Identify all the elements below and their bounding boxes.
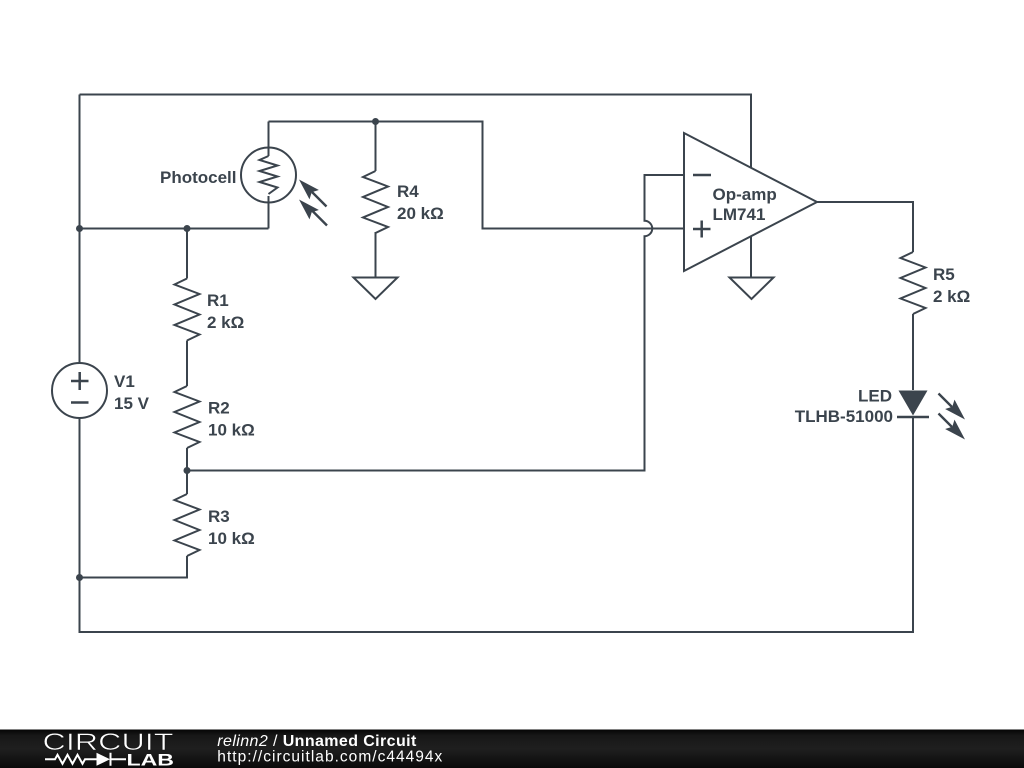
svg-text:relinn2 / Unnamed Circuit: relinn2 / Unnamed Circuit — [217, 733, 417, 750]
svg-text:10 kΩ: 10 kΩ — [208, 421, 255, 440]
svg-text:Op-amp: Op-amp — [713, 185, 777, 204]
svg-text:LAB: LAB — [127, 750, 175, 768]
svg-text:Photocell: Photocell — [160, 168, 237, 187]
svg-text:15 V: 15 V — [114, 394, 150, 413]
svg-text:2 kΩ: 2 kΩ — [207, 313, 244, 332]
svg-text:R1: R1 — [207, 291, 229, 310]
svg-text:TLHB-51000: TLHB-51000 — [795, 407, 893, 426]
svg-text:R5: R5 — [933, 265, 955, 284]
svg-text:http://circuitlab.com/c44494x: http://circuitlab.com/c44494x — [217, 748, 442, 765]
svg-text:LM741: LM741 — [713, 205, 766, 224]
svg-text:LED: LED — [858, 387, 892, 406]
svg-text:R3: R3 — [208, 507, 230, 526]
svg-text:V1: V1 — [114, 372, 135, 391]
svg-text:20 kΩ: 20 kΩ — [397, 204, 444, 223]
svg-text:R4: R4 — [397, 182, 419, 201]
svg-text:10 kΩ: 10 kΩ — [208, 529, 255, 548]
svg-text:2 kΩ: 2 kΩ — [933, 287, 970, 306]
svg-text:R2: R2 — [208, 399, 230, 418]
